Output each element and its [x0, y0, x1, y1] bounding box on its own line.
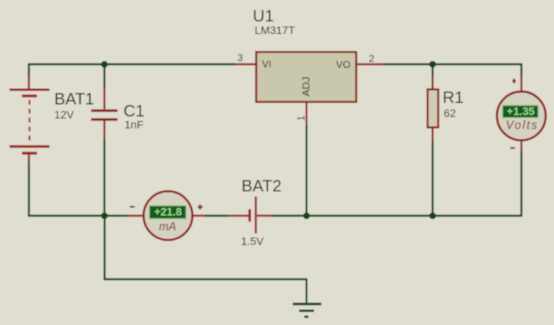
- svg-text:62: 62: [444, 108, 456, 120]
- svg-text:C1: C1: [124, 102, 145, 120]
- svg-text:1.5V: 1.5V: [241, 236, 264, 248]
- svg-text:BAT1: BAT1: [54, 90, 94, 108]
- svg-text:+21.8: +21.8: [154, 207, 182, 219]
- svg-text:BAT2: BAT2: [242, 178, 282, 196]
- svg-text:VI: VI: [262, 60, 271, 71]
- svg-text:Volts: Volts: [506, 120, 539, 132]
- svg-text:U1: U1: [253, 7, 274, 25]
- svg-text:12V: 12V: [54, 110, 74, 122]
- svg-text:mA: mA: [159, 221, 177, 233]
- svg-text:+1.35: +1.35: [507, 106, 535, 118]
- svg-text:2: 2: [369, 54, 375, 65]
- svg-text:R1: R1: [443, 89, 464, 107]
- svg-text:VO: VO: [336, 60, 351, 71]
- svg-text:LM317T: LM317T: [255, 25, 296, 37]
- svg-text:3: 3: [237, 53, 243, 64]
- svg-text:ADJ: ADJ: [300, 77, 312, 97]
- svg-text:1: 1: [297, 115, 308, 121]
- svg-text:1nF: 1nF: [125, 119, 144, 131]
